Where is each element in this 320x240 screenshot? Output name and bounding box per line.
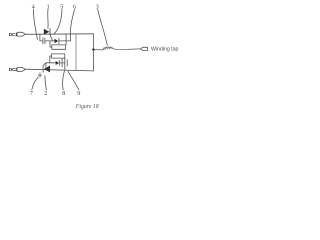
branch wire top rail to gate row: [39, 34, 41, 41]
svg-text:5: 5: [60, 4, 63, 10]
leader line from numeral 7: [32, 77, 38, 90]
leader line from numeral 2: [45, 76, 46, 90]
winding tap wire with coil: [93, 47, 139, 50]
svg-text:8: 8: [62, 91, 65, 97]
gate row wire (bottom): [46, 62, 65, 64]
connector symbol DC2: [17, 68, 25, 72]
thyristor Q2: [44, 66, 50, 73]
connector symbol winding tap: [140, 47, 147, 50]
gate lead Q2: [43, 63, 46, 66]
svg-text:4: 4: [32, 4, 35, 10]
plus mark near Q2 gate: [38, 73, 41, 77]
box left edge: [75, 34, 77, 70]
node at winding tap junction: [92, 48, 94, 50]
svg-text:6: 6: [73, 4, 76, 10]
box right edge: [92, 34, 94, 71]
capacitor C2 inner plate: [61, 59, 63, 67]
gate row wire (top): [40, 40, 71, 42]
diode D1: [55, 39, 59, 44]
wire DC2 bottom rail: [25, 69, 93, 71]
leader line from numeral 6: [70, 9, 74, 41]
leader line from numeral 1: [47, 9, 49, 28]
vertical wire R2 right to bottom rail: [64, 58, 66, 70]
resistor R1: [52, 45, 66, 49]
svg-text:Figure 18: Figure 18: [75, 104, 99, 110]
leader line from numeral 8: [63, 71, 65, 90]
leader line from numeral 5: [54, 9, 62, 33]
connector symbol DC1: [17, 32, 25, 36]
diode D2: [56, 61, 59, 65]
diode D1 cathode bar: [58, 38, 60, 43]
capacitor C2 plate: [66, 60, 68, 66]
capacitor C1: [43, 38, 45, 44]
thyristor Q1: [44, 29, 50, 35]
gate lead Q1: [50, 35, 53, 41]
svg-text:Winding tap: Winding tap: [151, 46, 179, 52]
svg-text:7: 7: [30, 91, 33, 97]
thyristor Q1 cathode bar: [49, 28, 52, 34]
leader line from numeral 4: [33, 9, 37, 39]
diode D2 cathode bar: [58, 60, 60, 65]
resistor R2: [52, 54, 65, 58]
svg-text:DC2: DC2: [9, 67, 18, 72]
svg-text:1: 1: [47, 4, 50, 10]
svg-text:3: 3: [96, 4, 99, 10]
wire DC1 top rail: [25, 33, 93, 36]
svg-text:2: 2: [44, 91, 47, 97]
branch wire gate row to bottom rail: [45, 63, 47, 70]
thyristor Q2 anode bar: [42, 65, 44, 72]
wire R2 left to gate row: [50, 56, 52, 63]
vertical wire rail to R1 right: [65, 34, 67, 45]
svg-text:DC1: DC1: [9, 32, 18, 37]
svg-text:9: 9: [77, 91, 80, 97]
leader line from numeral 9: [68, 71, 79, 90]
wire R1 left to gate row: [50, 41, 52, 47]
leader line from numeral 3: [98, 9, 108, 45]
